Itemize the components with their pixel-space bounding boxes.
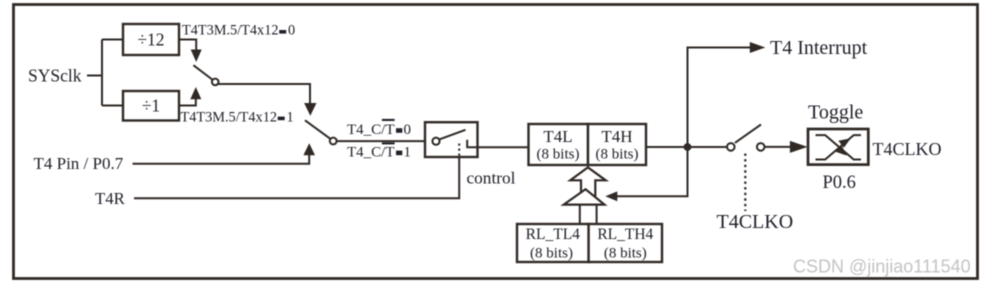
label T4T3M.5/T4x12=1 bbox=[181, 110, 294, 126]
wire control to T4R line bbox=[134, 157, 459, 199]
wire SW3 to toggle box with arrow bbox=[765, 141, 808, 153]
register RL_TH4 box bbox=[589, 224, 662, 262]
svg-text:T4CLKO: T4CLKO bbox=[717, 211, 794, 233]
wire reload trigger with left arrow bbox=[605, 147, 687, 201]
svg-text:(8 bits): (8 bits) bbox=[596, 147, 639, 163]
toggle box U2 bbox=[808, 129, 868, 165]
output switch SW3 lever bbox=[735, 125, 761, 143]
svg-text:CSDN @jinjiao111540: CSDN @jinjiao111540 bbox=[793, 257, 971, 277]
node SYSclk bbox=[28, 66, 82, 86]
label T4CLKO output bbox=[873, 139, 942, 159]
wire SW1 pole to SW2 contact with down arrow bbox=[218, 84, 317, 116]
wire SYSclk to branch bbox=[87, 40, 123, 106]
control box U1 bbox=[425, 122, 478, 157]
divider /1 box bbox=[123, 91, 179, 121]
toggle crossover symbol bbox=[816, 135, 862, 159]
svg-text:T4_C/T: T4_C/T bbox=[347, 144, 395, 160]
svg-text:0: 0 bbox=[288, 23, 295, 39]
reload hollow arrow upper bbox=[570, 167, 605, 198]
node T4 Pin / P0.7 bbox=[34, 154, 124, 173]
svg-text:÷12: ÷12 bbox=[137, 30, 164, 50]
control box fixed contact bracket bbox=[467, 140, 477, 148]
label T4 Interrupt bbox=[770, 37, 868, 59]
label T4_C/T=0 with overline bbox=[347, 119, 411, 138]
svg-text:(8 bits): (8 bits) bbox=[530, 246, 573, 262]
register T4L box bbox=[529, 124, 589, 165]
label T4CLKO bottom bbox=[717, 211, 794, 233]
control box switch lever bbox=[440, 130, 466, 140]
svg-text:(8 bits): (8 bits) bbox=[604, 246, 647, 262]
svg-text:T4_C/T: T4_C/T bbox=[347, 122, 395, 138]
reload stem lower bbox=[580, 205, 597, 224]
svg-text:1: 1 bbox=[287, 110, 294, 126]
node T4R bbox=[95, 189, 126, 208]
label Toggle bbox=[808, 102, 863, 124]
svg-text:(8 bits): (8 bits) bbox=[537, 147, 580, 163]
register T4H box bbox=[588, 124, 646, 165]
reload hollow triangle lower bbox=[564, 189, 605, 204]
divider /12 box bbox=[123, 24, 179, 55]
svg-text:P0.6: P0.6 bbox=[823, 173, 856, 193]
wire overflow to T4 Interrupt with arrow bbox=[688, 42, 766, 147]
switch SW1 lever and pole bbox=[193, 65, 218, 85]
svg-text:T4R: T4R bbox=[95, 189, 126, 208]
control box switch pole bbox=[432, 138, 439, 145]
label P0.6 bbox=[823, 173, 856, 193]
control dotted linkage bbox=[458, 144, 460, 157]
svg-text:1: 1 bbox=[404, 144, 412, 160]
svg-text:T4T3M.5/T4x12: T4T3M.5/T4x12 bbox=[181, 110, 278, 126]
label control bbox=[467, 169, 516, 188]
switch SW2 lever and pole bbox=[305, 120, 337, 144]
svg-text:T4L: T4L bbox=[543, 127, 572, 146]
register RL_TL4 box bbox=[517, 224, 589, 262]
svg-text:RL_TH4: RL_TH4 bbox=[597, 226, 653, 243]
svg-text:T4 Interrupt: T4 Interrupt bbox=[770, 37, 868, 59]
wire T4H to output switch bbox=[646, 146, 727, 148]
svg-text:T4T3M.5/T4x12: T4T3M.5/T4x12 bbox=[182, 23, 279, 39]
wire control box to T4L bbox=[478, 146, 529, 148]
wire SW2 pole to control box bbox=[337, 140, 425, 142]
svg-text:Toggle: Toggle bbox=[808, 102, 863, 124]
svg-text:T4H: T4H bbox=[601, 127, 632, 146]
svg-text:0: 0 bbox=[404, 122, 412, 138]
svg-text:T4 Pin / P0.7: T4 Pin / P0.7 bbox=[34, 154, 124, 173]
wire T4 Pin to SW2 contact with up arrow bbox=[133, 143, 316, 163]
watermark CSDN bbox=[793, 257, 971, 277]
svg-text:÷1: ÷1 bbox=[142, 96, 160, 116]
svg-text:control: control bbox=[467, 169, 516, 188]
output switch SW3 pole left bbox=[727, 143, 735, 151]
junction node bbox=[684, 143, 692, 151]
svg-text:T4CLKO: T4CLKO bbox=[873, 139, 942, 159]
svg-text:SYSclk: SYSclk bbox=[28, 66, 82, 86]
output switch SW3 pole right bbox=[757, 143, 765, 151]
wire /12 to switch contact with down arrow bbox=[179, 40, 202, 63]
dotted control line to T4CLKO bbox=[744, 154, 746, 212]
wire /1 to switch contact with up arrow bbox=[179, 87, 201, 106]
label T4_C/T=1 with overline bbox=[347, 142, 411, 160]
svg-text:RL_TL4: RL_TL4 bbox=[526, 226, 580, 243]
label T4T3M.5/T4x12=0 bbox=[182, 23, 295, 39]
